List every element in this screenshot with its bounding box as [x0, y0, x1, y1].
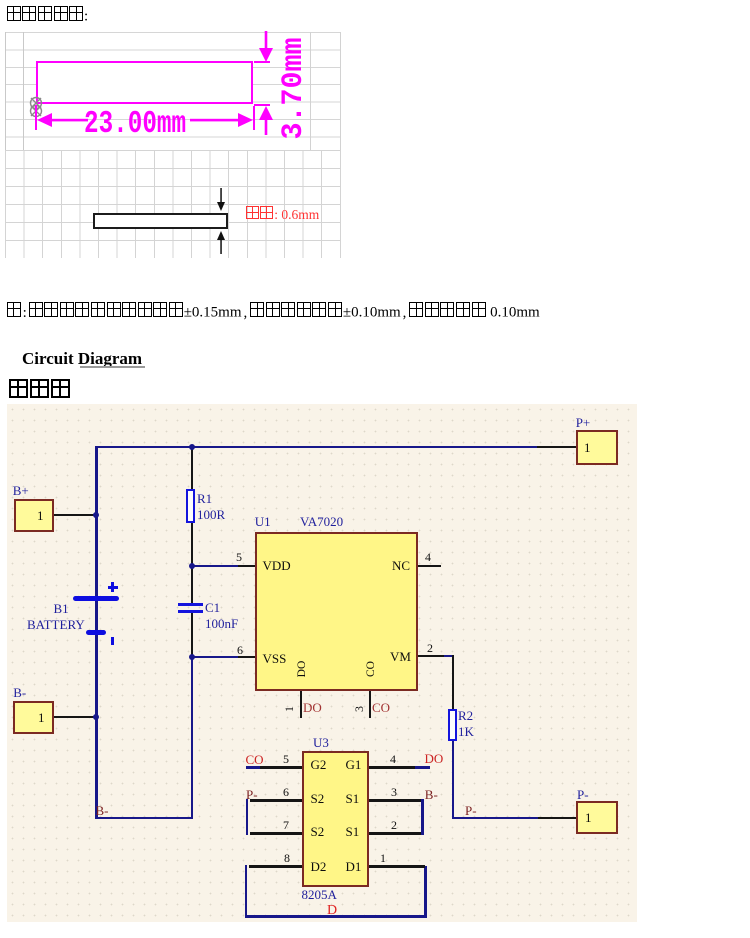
wire B+ net left vertical: [95, 446, 98, 819]
dimension extension line left: [35, 105, 37, 130]
wire U1 pin6 VSS: [192, 656, 238, 658]
U1 pin number 4: [425, 551, 431, 563]
board outline rectangle (magenta): [36, 61, 253, 104]
U1 pin number 5: [236, 551, 242, 563]
heading Circuit Diagram: [22, 349, 142, 369]
grid panel upper left verticals: [5, 32, 6, 150]
net label P- (near port): [465, 804, 477, 817]
wire C1 bottom pin segment: [191, 612, 193, 658]
net label CO under U1: [372, 701, 390, 714]
IC U1 designator: [255, 515, 271, 528]
schematic sheet background: [7, 404, 637, 922]
wire P- net horizontal: [452, 817, 538, 819]
U3 pin name S1 (pin2): [346, 825, 360, 838]
dimension extension line right: [253, 106, 255, 130]
net label CO (left of U3): [246, 753, 264, 766]
U3 pin3 stub: [369, 799, 421, 801]
gray artifact line: [80, 366, 145, 368]
battery B1 short plate: [86, 630, 107, 635]
U3 pin5 stub: [258, 766, 302, 768]
net label B- (left bottom): [96, 804, 109, 817]
U3 pin5 wire tail (CO net): [246, 766, 260, 768]
U1 pin name VDD: [263, 559, 291, 572]
port P- pin number 1: [585, 811, 592, 824]
resistor R2: [448, 709, 457, 741]
port B- label: [13, 686, 26, 699]
label 厚度: 0.6mm (red): [245, 206, 319, 223]
pin P- port: [538, 817, 576, 819]
U1 pin number 2: [427, 642, 433, 654]
U3 pin name S2 (pin6): [311, 792, 325, 805]
junction node VSS / C1: [189, 654, 195, 660]
wire P+ net top horizontal: [95, 446, 577, 448]
heading 保护板尺寸:: [6, 6, 88, 26]
thickness up arrow: [215, 230, 227, 254]
U1 pin number 6: [237, 644, 243, 656]
pin B- port: [54, 716, 96, 718]
wire VM to R2 corner horizontal: [444, 655, 454, 657]
U3 pin name D1: [346, 860, 362, 873]
pin B+ port: [53, 514, 96, 516]
U3 pin number 5: [283, 753, 289, 765]
net label DO under U1: [303, 701, 322, 714]
capacitor C1 labels: [205, 601, 220, 614]
vertical dim lower arrow (points up): [258, 105, 274, 135]
U3 pin4 stub: [369, 766, 415, 768]
wire C1 top pin segment: [191, 566, 193, 603]
U3 pin name G2: [311, 758, 327, 771]
corner origin markers (crossed circles): [27, 94, 47, 120]
side view thin board rectangle: [93, 213, 228, 230]
U1 pin number 3 (rotated): [353, 706, 365, 712]
extension tick bottom right: [254, 104, 270, 106]
U3 pin name G1: [346, 758, 362, 771]
wire bottom loop right vertical: [424, 866, 426, 917]
dimension text 23.00mm: [84, 110, 179, 141]
U3 pin number 6: [283, 786, 289, 798]
U1 pin name NC: [392, 559, 410, 572]
wire R1 bottom pin segment: [191, 523, 193, 567]
U1 pin number 1 (rotated): [283, 706, 295, 712]
IC U1 part number VA7020: [300, 515, 343, 528]
heading 原理图: [8, 379, 71, 403]
resistor R2 labels: [458, 709, 473, 722]
wire VM to R2 vertical: [452, 655, 454, 710]
battery B1 minus sign: [111, 637, 114, 645]
IC U1 body: [255, 532, 419, 691]
U3 pin6 stub: [250, 799, 302, 801]
wire pin6-pin7 left loop: [246, 799, 248, 835]
U3 pin4 wire tail (DO net): [415, 766, 430, 768]
grid panel upper (horizontal lines only in middle): [5, 32, 341, 150]
junction node B+: [93, 512, 99, 518]
U3 pin name S1 (pin3): [346, 792, 360, 805]
port P+ label: [576, 416, 591, 429]
port P- box: [576, 801, 618, 834]
wire pin8 down left loop: [245, 865, 247, 917]
resistor R1: [186, 489, 195, 522]
U1 pin name VM: [390, 650, 411, 663]
IC U3 part number 8205A: [302, 888, 337, 901]
IC U3 designator: [313, 736, 329, 749]
grid panel upper right verticals: [310, 32, 311, 150]
U3 pin number 3: [391, 786, 397, 798]
battery B1 long plate: [73, 596, 119, 601]
junction node top (R1 / P+ wire): [189, 444, 195, 450]
dimension line 23.00mm right segment with arrowhead: [188, 112, 254, 128]
resistor R1 labels: [197, 492, 212, 505]
note line: [6, 302, 540, 321]
U3 pin name S2 (pin7): [311, 825, 325, 838]
wire U1 pin3 CO stub vertical: [369, 691, 371, 718]
U3 pin number 8: [284, 852, 290, 864]
extension tick top right: [254, 61, 270, 63]
thickness down arrow: [215, 188, 227, 212]
port B- box: [13, 701, 54, 734]
pin P+ port: [537, 446, 576, 448]
wire R1 top pin segment: [191, 447, 193, 490]
wire U1 pin1 DO stub vertical: [300, 691, 302, 718]
wire pin3-pin2 right loop: [421, 799, 423, 835]
port P+ box: [576, 430, 618, 465]
capacitor C1 plate top: [178, 603, 203, 606]
junction node B-: [93, 714, 99, 720]
port B+ box: [14, 499, 54, 532]
port B- pin number 1: [38, 711, 45, 724]
port B+ pin number 1: [37, 509, 44, 522]
U1 pin name DO (rotated): [296, 655, 308, 683]
battery B1 plus sign: [108, 586, 118, 589]
U3 pin number 4: [390, 753, 396, 765]
dimension text 3.70mm (rotated): [280, 33, 310, 144]
grid panel lower (full grid): [5, 150, 341, 258]
vertical dim upper arrow (points down): [258, 31, 274, 63]
junction node VDD / R1 / C1: [189, 563, 195, 569]
wire B- net mid vertical (x192): [191, 657, 193, 818]
net label B- (right of U3): [425, 788, 438, 801]
U3 pin1 stub: [369, 865, 425, 867]
U3 pin name D2: [311, 860, 327, 873]
port P- label: [577, 788, 589, 801]
wire U1 pin4 NC stub: [418, 565, 441, 567]
wire bottom loop horizontal (D net): [245, 915, 427, 917]
U3 pin8 stub: [249, 865, 302, 867]
U1 pin name CO (rotated): [365, 655, 377, 683]
IC U3 body: [302, 751, 370, 888]
U3 pin7 stub: [250, 832, 302, 834]
net label P- (left of U3): [246, 788, 258, 801]
net label DO (right of U3): [425, 752, 444, 765]
wire B- net bottom-left horizontal: [95, 817, 193, 819]
net label D (red): [327, 904, 337, 918]
port B+ label: [13, 484, 29, 497]
U3 pin number 1: [380, 852, 386, 864]
U3 pin number 2: [391, 819, 397, 831]
wire R2 bottom to P- vertical: [452, 741, 454, 819]
capacitor C1 plate bottom: [178, 610, 203, 613]
dimension line 23.00mm left segment with arrowhead: [36, 112, 88, 128]
U3 pin2 stub: [369, 832, 422, 834]
battery B1 labels: [54, 602, 69, 615]
U1 pin name VSS: [263, 652, 287, 665]
wire U1 pin2 VM stub: [418, 655, 444, 657]
U3 pin number 7: [283, 819, 289, 831]
port P+ pin number 1: [584, 441, 591, 454]
wire U1 pin5 VDD: [192, 565, 238, 567]
